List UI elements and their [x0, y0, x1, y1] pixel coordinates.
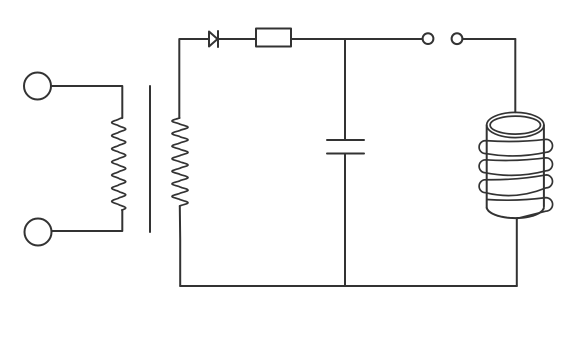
switch contact right — [452, 33, 463, 44]
wire switch to right corner — [462, 38, 515, 40]
transformer secondary winding L2 — [172, 118, 188, 206]
wire secondary winding top to top rail — [179, 39, 209, 118]
terminal A (top-left plug pin) — [24, 73, 51, 100]
capacitor C1 — [327, 140, 364, 154]
wire primary winding bottom to terminal B — [52, 210, 122, 231]
wire terminal A to primary winding top — [51, 86, 122, 118]
electromagnet core cylinder right side — [543, 125, 545, 207]
electromagnet winding turn 4 — [487, 198, 553, 219]
electromagnet winding turn 2 — [479, 158, 552, 176]
electromagnet winding turn 1 — [479, 139, 552, 156]
wire top rail to capacitor — [344, 39, 346, 140]
switch contact left — [423, 33, 434, 44]
electromagnet core top rim inner — [490, 116, 540, 134]
resistor R1 — [256, 29, 291, 47]
wire diode to resistor — [218, 38, 256, 40]
electromagnet core bottom face — [487, 208, 544, 218]
wire capacitor to bottom rail — [344, 154, 346, 287]
terminal B (bottom-left plug pin) — [25, 219, 52, 246]
electromagnet winding turn 3 — [479, 175, 552, 196]
transformer primary winding L1 — [112, 118, 126, 210]
wire right corner down to coil — [514, 39, 516, 112]
electromagnet core top rim outer — [487, 112, 544, 137]
diode D1 — [209, 31, 218, 47]
wire resistor to switch — [291, 38, 422, 40]
wire secondary winding bottom to bottom rail — [179, 206, 181, 286]
wire coil bottom to bottom rail — [516, 219, 518, 287]
bottom rail wire — [180, 285, 517, 287]
transformer core — [149, 86, 151, 232]
electromagnet core cylinder left side — [486, 125, 488, 208]
